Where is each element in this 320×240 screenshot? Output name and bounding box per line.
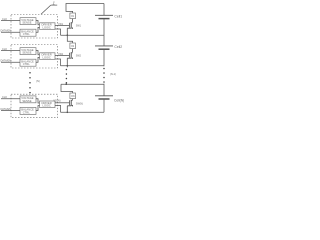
transistor SWN: [67, 99, 73, 113]
block CN label: [42, 101, 52, 108]
node junction branch column on feed wire: [65, 83, 67, 85]
block B2: [20, 59, 36, 66]
label (N): [36, 79, 40, 83]
svg-text:(N-1): (N-1): [110, 72, 116, 76]
node junction bottom return: [67, 112, 69, 114]
block BN label: [21, 108, 34, 115]
transistor SW2: [67, 49, 73, 66]
block BN: [20, 107, 36, 114]
transistor SW1: [67, 19, 73, 36]
wire A1 to C1: [36, 21, 40, 25]
unit 1 dashed box: [11, 15, 58, 39]
underline of numeral 1: [51, 4, 57, 6]
transistor SW2 label: [76, 55, 82, 58]
wire bus segment below cell2: [103, 50, 105, 67]
block B1: [20, 29, 36, 36]
label VD2: [58, 52, 64, 56]
transistor SW1 label: [76, 25, 82, 28]
wire bus segment cell1-cell2: [103, 19, 105, 46]
wire boundary cell2-cell3: [61, 65, 105, 67]
resistor R2 label: [71, 46, 75, 48]
wire CLK input unit1: [1, 20, 20, 22]
cell Cell1: [95, 15, 113, 18]
wire CLK input unitN: [1, 98, 20, 100]
block C2 label: [42, 53, 52, 60]
ellipsis dots left column: [29, 72, 31, 93]
block A1 label: [21, 18, 34, 25]
input label CLK unitN: [2, 95, 7, 99]
cell Cell1 label: [114, 14, 122, 18]
label VD1: [58, 22, 64, 26]
wire reference exit unit2: [55, 59, 61, 66]
leader line from numeral 1: [41, 5, 51, 14]
wire bus bottom segment: [103, 100, 105, 113]
svg-text:SENSE: SENSE: [22, 21, 31, 25]
svg-text:CTRL: CTRL: [23, 110, 31, 114]
block AN: [20, 96, 36, 103]
wire DATA input unitN: [1, 110, 20, 112]
unit 2 dashed box: [11, 45, 58, 69]
svg-text:CTRL: CTRL: [23, 62, 31, 66]
block C1: [40, 23, 56, 30]
svg-text:LOGIC: LOGIC: [43, 55, 51, 59]
cell CellN: [95, 96, 113, 99]
resistor R1: [70, 13, 76, 19]
wire gate drive unit2: [55, 55, 69, 57]
svg-text:VD2: VD2: [58, 52, 64, 56]
wire BN to CN: [36, 106, 40, 111]
svg-text:Cell(N): Cell(N): [114, 99, 124, 103]
wire B1 to C1: [36, 27, 40, 32]
svg-text:VD(N): VD(N): [53, 98, 60, 102]
wire bus segment above cellN: [103, 84, 105, 96]
svg-text:LOGIC: LOGIC: [43, 25, 51, 29]
label VDN: [53, 98, 60, 102]
wire bus top segment: [103, 4, 105, 16]
block AN label: [21, 96, 34, 103]
unit N dashed box: [11, 94, 58, 118]
wire feed to R2: [67, 35, 72, 43]
label (N-1): [110, 72, 116, 76]
input label DATA unitN: [1, 108, 12, 111]
node junction cell2-cell3: [67, 65, 69, 67]
resistor RN label: [71, 96, 75, 98]
resistor R1 label: [71, 16, 75, 18]
wire gate drive unit1: [55, 25, 69, 27]
wire AN to CN: [36, 99, 40, 103]
wire boundary cell1-cell2: [61, 34, 105, 36]
svg-text:VD1: VD1: [58, 22, 64, 26]
wire B2 to C2: [36, 57, 40, 62]
block C2: [40, 53, 56, 60]
svg-text:Cell2: Cell2: [114, 45, 122, 49]
resistor RN: [70, 93, 76, 99]
block A2 label: [21, 48, 34, 55]
svg-text:LOGIC: LOGIC: [43, 104, 51, 108]
block A1: [20, 18, 36, 25]
block CN: [40, 101, 56, 108]
svg-text:(N): (N): [36, 79, 40, 83]
input label DATA unit1: [1, 30, 12, 33]
svg-text:RN: RN: [71, 96, 75, 98]
wire CLK input unit2: [1, 50, 20, 52]
block A2: [20, 48, 36, 55]
svg-text:SW1: SW1: [76, 25, 82, 28]
reference numeral 1: [53, 0, 56, 5]
svg-text:SENSE: SENSE: [22, 51, 31, 55]
input label CLK unit1: [2, 17, 7, 21]
svg-text:Cell1: Cell1: [114, 14, 122, 18]
ellipsis dots bus column: [103, 68, 105, 83]
wire top supply: [66, 4, 104, 14]
svg-text:SW(N): SW(N): [76, 102, 83, 105]
cell CellN label: [114, 99, 124, 103]
block B2 label: [21, 59, 34, 66]
wire DATA input unit2: [1, 61, 20, 63]
svg-text:SENSE: SENSE: [22, 99, 31, 103]
wire reference exit unitN: [55, 105, 61, 112]
cell Cell2 label: [114, 45, 122, 49]
input label CLK unit2: [2, 47, 7, 51]
resistor R2: [70, 43, 76, 49]
cell Cell2: [95, 46, 113, 49]
wire feed to RN: [61, 84, 73, 93]
wire boundary cellN top: [61, 83, 104, 85]
wire A2 to C2: [36, 51, 40, 55]
block B1 label: [21, 29, 34, 36]
wire reference exit unit1: [55, 29, 61, 35]
wire DATA input unit1: [1, 31, 20, 33]
wire stub below junction: [66, 66, 68, 68]
input label DATA unit2: [1, 60, 12, 63]
node junction cell1-cell2: [67, 34, 69, 36]
wire bottom return: [61, 111, 105, 113]
ellipsis dots branch column: [66, 69, 68, 84]
wire gate drive unitN: [55, 102, 69, 104]
svg-text:CTRL: CTRL: [23, 32, 31, 36]
svg-text:SW2: SW2: [76, 55, 82, 58]
block C1 label: [42, 23, 52, 30]
transistor SWN label: [76, 102, 83, 105]
